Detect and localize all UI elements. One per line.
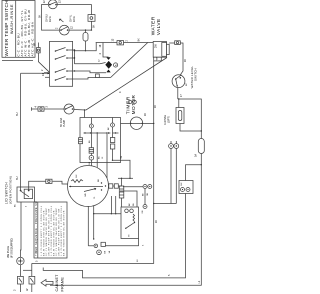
svg-text:4: 4 xyxy=(99,53,102,55)
wire valve to right xyxy=(169,42,175,44)
short link wire xyxy=(23,269,32,271)
svg-text:4: 4 xyxy=(26,205,28,207)
svg-text:FRAME: FRAME xyxy=(60,277,64,292)
inline connector boxes motor right xyxy=(109,184,113,188)
contact 4 xyxy=(55,77,73,81)
triangle up connector xyxy=(106,70,110,73)
svg-text:TIMER SEQUENCE - PRESSURE SW: TIMER SEQUENCE - PRESSURE SW xyxy=(36,201,38,256)
motor switch box xyxy=(121,207,139,239)
circled connectors right of motor xyxy=(143,185,152,189)
stubs above circled pair xyxy=(171,141,176,144)
wire from connector down and diagonal to contact box area xyxy=(38,43,50,74)
wire lid switch bottom xyxy=(19,202,22,257)
svg-text:1/3 A: 1/3 A xyxy=(73,16,76,22)
svg-text:2: 2 xyxy=(56,27,59,29)
start switch circled terminal right xyxy=(108,118,115,131)
contact 1 xyxy=(55,48,75,52)
pump wire left xyxy=(32,108,65,110)
inline connector box 2 motor right xyxy=(114,184,118,188)
wire contact box top exit right xyxy=(74,43,96,51)
start switch contact row xyxy=(84,132,119,134)
svg-text:CABINET: CABINET xyxy=(55,274,59,292)
wire horizontal y73.2 to left vertical xyxy=(21,72,51,74)
svg-text:16: 16 xyxy=(144,113,147,116)
svg-text:5A: 5A xyxy=(195,154,198,157)
wire pump right and diagonal d1 xyxy=(74,58,167,111)
start switch vertical drops xyxy=(96,133,98,168)
svg-text:2: 2 xyxy=(126,40,129,42)
junction dots at contact box exits xyxy=(74,49,75,50)
svg-text:13: 13 xyxy=(59,0,62,3)
svg-text:(OPEN POSITION): (OPEN POSITION) xyxy=(9,176,13,204)
small connector box xyxy=(101,242,105,246)
contact 2 xyxy=(55,56,73,60)
svg-text:BK: BK xyxy=(34,42,37,46)
wire horizontal y60.5 left stub xyxy=(2,60,33,62)
svg-text:W: W xyxy=(26,288,29,291)
verticals from cluster to bottom wire xyxy=(110,196,112,214)
water level switch label xyxy=(190,66,198,89)
svg-text:(OPT): (OPT) xyxy=(167,116,170,123)
wire plug down xyxy=(19,265,21,277)
water temp switch contact box xyxy=(50,41,73,86)
wire contact box fourth exit to diagonal xyxy=(73,78,111,80)
wire right vertical top xyxy=(90,4,92,30)
plug connector 2 xyxy=(29,276,35,284)
svg-text:BU: BU xyxy=(16,176,19,180)
junction arrowheads at contact box left xyxy=(48,72,51,74)
diagonal wire d2 xyxy=(111,43,148,78)
motor bottom wires xyxy=(87,206,89,246)
wire to bottom xyxy=(19,284,21,292)
circled pair connectors xyxy=(169,144,179,149)
start switch box xyxy=(80,118,121,163)
pump label xyxy=(60,117,66,127)
svg-text:X-RINSE: X-RINSE xyxy=(164,115,167,125)
wire bottom cluster xyxy=(88,245,93,247)
svg-text:(IF SO EQUIPPED): (IF SO EQUIPPED) xyxy=(11,238,13,258)
svg-text:4: 4 xyxy=(35,106,38,108)
svg-text:WT: WT xyxy=(186,82,188,86)
svg-text:BK: BK xyxy=(105,250,107,253)
svg-text:16: 16 xyxy=(154,105,157,108)
circled connector P xyxy=(97,250,102,255)
svg-text:2B: 2B xyxy=(133,203,135,206)
wire top horizontal xyxy=(42,3,92,5)
junction pump feed to start switch xyxy=(84,109,85,110)
wire branch to connector block xyxy=(186,165,202,181)
wire contact box third exit to triangle xyxy=(73,71,106,73)
wires between circled pairs xyxy=(144,189,146,205)
wire main top horizontal to water valve xyxy=(96,42,154,44)
svg-text:2: 2 xyxy=(41,69,44,71)
cabinet frame label xyxy=(55,274,64,292)
svg-text:L1: L1 xyxy=(198,280,201,283)
wire component chain xyxy=(180,124,201,132)
svg-text:16: 16 xyxy=(155,220,158,223)
hatched resistor component xyxy=(119,186,124,198)
svg-text:3: 3 xyxy=(46,106,49,108)
wires from rounded component xyxy=(85,30,87,51)
svg-text:17: 17 xyxy=(180,94,183,97)
wire 2 into contact box xyxy=(44,72,50,74)
svg-text:1A: 1A xyxy=(108,250,111,253)
svg-text:BK: BK xyxy=(129,203,131,206)
timer switch circle C1 xyxy=(43,0,62,9)
wire contact box second exit to diamond xyxy=(73,58,106,64)
svg-text:BU: BU xyxy=(15,204,17,207)
svg-text:WATER TEMP SWITCH: WATER TEMP SWITCH xyxy=(4,0,9,56)
wire from connector block down to bottom return xyxy=(43,194,185,278)
connector on lid wire xyxy=(46,179,52,183)
rounded component above contact box xyxy=(83,33,88,42)
svg-text:BU: BU xyxy=(16,112,19,116)
wire y160 cluster xyxy=(113,160,131,178)
wire y178 xyxy=(118,177,133,179)
svg-text:SWITCH: SWITCH xyxy=(194,68,198,81)
timer motor label xyxy=(126,95,137,115)
wire to water level switch xyxy=(180,43,183,75)
connector small box on left wire y75.8 xyxy=(96,74,100,78)
start switch circled terminal left xyxy=(89,118,93,129)
motor right wires xyxy=(109,185,122,187)
svg-text:PUMP: PUMP xyxy=(63,119,66,127)
vertical 2 from cluster xyxy=(115,196,117,214)
svg-text:5: 5 xyxy=(36,260,39,262)
svg-text:3W PLUG: 3W PLUG xyxy=(6,246,10,258)
plug connector 1 xyxy=(18,276,24,284)
wire lid area to motor xyxy=(53,181,68,184)
wire right branch to far right vertical xyxy=(178,99,202,139)
far right vertical lower part and bottom return xyxy=(50,154,201,286)
wire down from junction xyxy=(178,99,180,108)
connector block box right xyxy=(179,181,193,194)
svg-text:WASH-RINSE: WASH-RINSE xyxy=(10,4,14,34)
svg-text:12: 12 xyxy=(43,0,46,3)
svg-text:WATER: WATER xyxy=(151,16,157,35)
cabinet frame arrow xyxy=(41,279,53,286)
wire vertical into triangle-down xyxy=(103,43,109,58)
wires from circled pair down xyxy=(170,148,172,203)
box edge connector with hatches xyxy=(79,138,83,144)
circled connector single lower xyxy=(142,205,147,214)
wire y213 xyxy=(94,213,122,215)
contact 3 xyxy=(55,69,73,73)
second bottom wire xyxy=(31,263,33,276)
svg-text:MOTOR: MOTOR xyxy=(131,95,136,115)
chart box xyxy=(34,201,67,258)
svg-text:BK-W TIMER MTR BU-BR MOTOR: BK-W TIMER MTR BU-BR MOTOR xyxy=(63,210,65,256)
rounded component 5A on right vertical xyxy=(198,139,204,154)
svg-text:WH: WH xyxy=(85,193,87,197)
svg-text:BK: BK xyxy=(138,38,141,42)
plug circle xyxy=(17,257,24,264)
wire below water level switch xyxy=(177,87,179,99)
pump circle xyxy=(64,104,74,114)
svg-text:1/2 A: 1/2 A xyxy=(49,16,52,22)
wire to bottom 2 xyxy=(31,284,33,292)
wire 14 into contact box xyxy=(45,76,50,78)
wire y203.5 xyxy=(154,203,177,205)
long vertical from water valve WH box down to bottom return xyxy=(32,61,154,264)
svg-text:BK: BK xyxy=(143,193,145,196)
svg-text:VALVE: VALVE xyxy=(156,18,162,35)
wire long left vertical to lid switch xyxy=(20,73,22,187)
connector with circle on wire from table xyxy=(37,48,41,53)
tick at pump wire left end xyxy=(31,107,33,111)
start switch left chain resistor xyxy=(89,128,94,167)
water level switch circle xyxy=(172,75,188,88)
circled connector BK xyxy=(94,244,98,248)
svg-text:TIMER: TIMER xyxy=(126,96,131,114)
wire to circled pair xyxy=(123,186,143,188)
start switch vertical drop 2 xyxy=(106,133,108,178)
svg-text:M: M xyxy=(129,235,131,237)
circled letter A xyxy=(114,63,118,67)
connector after valve xyxy=(175,41,181,45)
svg-text:OR: OR xyxy=(147,192,149,196)
connector on main wire xyxy=(117,41,124,45)
x-rinse label xyxy=(164,115,171,125)
svg-text:5: 5 xyxy=(168,274,171,276)
connector box on vertical xyxy=(88,15,95,22)
wire resistor connections xyxy=(121,178,123,207)
water valve box xyxy=(153,42,169,61)
connector on pump wire xyxy=(38,107,44,111)
triangle down connector xyxy=(106,57,110,60)
svg-text:GN: GN xyxy=(142,210,144,214)
fuse component box xyxy=(176,108,184,124)
svg-text:2W: 2W xyxy=(155,44,158,48)
svg-text:16: 16 xyxy=(184,59,187,62)
water temp switch table box xyxy=(2,0,35,57)
3w plug label xyxy=(6,238,14,258)
svg-text:BK: BK xyxy=(38,14,41,18)
svg-text:3: 3 xyxy=(14,289,17,291)
vertical jog down to diamond feed xyxy=(73,50,75,64)
wire lid switch right xyxy=(29,181,46,187)
mech link arrow xyxy=(60,19,64,22)
wire second horizontal xyxy=(44,29,91,31)
svg-text:WH: WH xyxy=(157,56,159,60)
lid switch label xyxy=(4,176,12,204)
water valve label xyxy=(151,16,163,35)
timer switch circle C2 xyxy=(56,25,74,35)
wire drop into start switch box xyxy=(84,110,86,118)
timer motor wire xyxy=(121,122,154,124)
svg-text:5: 5 xyxy=(143,244,145,246)
svg-text:12: 12 xyxy=(99,59,101,62)
svg-text:13: 13 xyxy=(112,38,115,41)
motor circle xyxy=(68,166,109,207)
svg-text:4: 4 xyxy=(119,91,122,93)
diamond connector xyxy=(105,61,112,69)
wire down to motor switch box xyxy=(120,191,137,207)
start switch right chain resistors xyxy=(110,127,114,161)
circled 5 and 9 labels xyxy=(128,100,136,104)
wire to box right edge xyxy=(105,239,138,246)
svg-text:ATC HC-C · RD-BA: ATC HC-C · RD-BA xyxy=(30,22,34,57)
svg-text:16: 16 xyxy=(137,259,139,262)
svg-text:BK: BK xyxy=(93,24,96,28)
timer motor circle xyxy=(130,117,143,129)
wire left vertical joining C1 C2 xyxy=(42,4,45,30)
lid switch box xyxy=(15,187,35,207)
svg-text:18: 18 xyxy=(99,44,102,47)
svg-text:12: 12 xyxy=(71,26,74,29)
